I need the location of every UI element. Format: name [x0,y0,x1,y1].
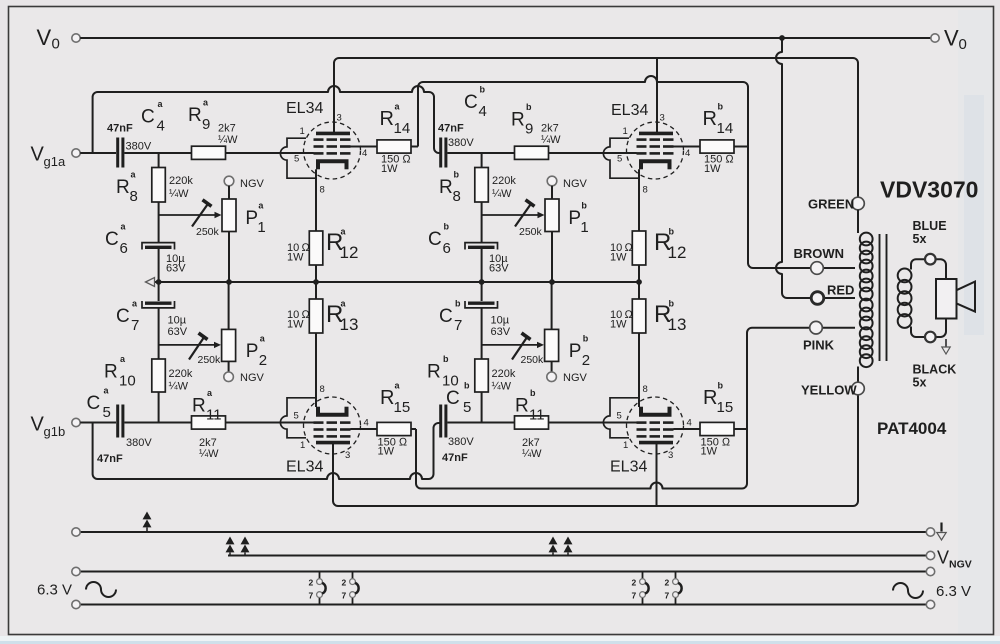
svg-text:b: b [718,102,724,112]
wire heater bus VNGV line [228,555,926,557]
resistor R8a [158,153,160,168]
transformer RED terminal [811,292,824,305]
svg-text:47nF: 47nF [442,452,468,464]
tube EL34 upper a envelope [304,122,361,179]
svg-text:250k: 250k [519,226,543,238]
wiper P1a [159,214,217,216]
svg-text:220k: 220k [169,368,193,380]
ground marker right [940,523,942,532]
terminal H1 right [926,528,934,536]
svg-text:0: 0 [52,36,60,53]
svg-text:C: C [464,92,478,113]
junction V0 drop [779,35,785,41]
svg-text:7: 7 [131,317,139,334]
svg-text:b: b [583,334,589,344]
capacitor C4b [439,138,442,168]
svg-text:4: 4 [362,148,367,159]
wire heater bus H1 ground ref line [80,531,926,533]
svg-text:R: R [380,108,394,130]
svg-text:YELLOW: YELLOW [801,383,857,398]
capacitor C4a [80,152,116,154]
svg-text:15: 15 [717,399,734,416]
heater pins 2/7 link at x=319.5 [319,572,321,580]
svg-text:¼W: ¼W [199,448,219,460]
resistor R10b [475,359,489,392]
svg-text:P: P [245,208,258,229]
svg-text:5: 5 [294,411,299,422]
wire screen rail R14a/R14b to BROWN tap [418,76,855,268]
svg-text:5: 5 [294,154,299,165]
svg-text:2: 2 [342,578,347,588]
terminal H4 left [72,600,80,608]
svg-text:15: 15 [394,399,411,416]
svg-text:9: 9 [202,116,210,133]
svg-text:4: 4 [479,103,487,120]
svg-text:2: 2 [632,578,637,588]
secondary BLACK terminal [925,332,936,343]
transformer YELLOW terminal [852,382,865,395]
svg-text:1: 1 [623,126,628,137]
terminal VNGV right [926,551,934,559]
svg-text:R: R [116,177,130,198]
tube EL34 upper a cathode [316,159,349,163]
svg-text:10µ: 10µ [491,315,510,327]
svg-text:47nF: 47nF [438,123,464,135]
svg-text:R: R [427,362,441,383]
resistor R10a [152,359,166,392]
svg-text:V: V [37,25,52,50]
speaker [936,279,957,319]
svg-text:C: C [116,306,130,327]
sine symbol right [893,583,923,598]
svg-text:b: b [444,222,450,232]
resistor R13a [315,282,317,299]
svg-text:b: b [455,299,461,309]
terminal Vg1a [72,149,80,157]
terminal NGV P2b [547,372,557,382]
svg-text:250k: 250k [198,354,222,366]
svg-text:¼W: ¼W [492,381,512,393]
resistor R9a [192,146,226,159]
tube EL34 lower b grid rows [637,435,647,438]
svg-text:R: R [511,110,525,131]
svg-text:2: 2 [582,352,590,369]
svg-text:1W: 1W [701,446,718,458]
svg-text:7: 7 [632,591,637,601]
wire upper EL34 b anode to rail [656,58,658,133]
svg-text:C: C [428,229,442,250]
svg-text:NGV: NGV [240,372,265,384]
svg-text:BROWN: BROWN [794,246,845,261]
svg-text:1: 1 [257,219,265,236]
svg-text:EL34: EL34 [286,459,323,476]
svg-text:b: b [669,227,675,237]
terminal H1 left [72,528,80,536]
svg-text:1: 1 [623,440,628,451]
tube EL34 upper b grid rows [637,138,647,141]
capacitor C5a [80,422,116,424]
svg-text:C: C [105,229,119,250]
svg-text:9: 9 [525,121,533,138]
svg-text:BLACK: BLACK [913,363,957,377]
svg-text:1W: 1W [704,163,721,175]
svg-text:8: 8 [130,188,138,205]
svg-text:3: 3 [337,113,342,124]
capacitor C5b [439,405,442,438]
node V0 left terminal [72,34,80,42]
svg-text:10: 10 [119,373,136,390]
svg-text:4: 4 [364,418,369,429]
svg-text:R: R [380,387,394,409]
tube EL34 lower a envelope bracket [280,398,316,438]
svg-text:11: 11 [206,407,222,424]
svg-text:R: R [703,387,717,409]
wiper P1b [482,214,540,216]
tube EL34 upper b envelope [627,122,684,179]
svg-text:¼W: ¼W [169,381,189,393]
svg-text:C: C [439,306,453,327]
svg-text:P: P [246,341,259,362]
svg-text:V: V [31,414,45,436]
svg-text:¼W: ¼W [169,188,189,200]
svg-text:2k7: 2k7 [541,123,559,135]
svg-text:10µ: 10µ [168,315,187,327]
wire lower EL34 b anode [656,443,658,506]
svg-text:4: 4 [687,418,692,429]
svg-text:5: 5 [617,411,622,422]
potentiometer P1b [551,186,553,199]
svg-text:R: R [188,105,202,126]
wire V0 rail [80,37,931,39]
svg-text:250k: 250k [521,354,545,366]
svg-text:b: b [480,85,486,95]
tube EL34 upper a anode plate [316,132,350,136]
svg-text:250k: 250k [196,226,220,238]
svg-text:C: C [141,107,155,128]
svg-text:2: 2 [309,578,314,588]
svg-text:¼W: ¼W [541,134,561,146]
svg-text:VDV3070: VDV3070 [880,177,978,203]
svg-text:R: R [439,177,453,198]
node V0 right terminal [931,34,939,42]
wire top anode rail to GREEN [334,58,858,197]
arrow to mid reference on H1 [143,513,150,527]
tube EL34 lower a cathode [316,413,349,417]
svg-text:V: V [937,548,949,568]
svg-text:12: 12 [668,243,687,262]
wire lower anodes line to YELLOW [333,395,858,506]
svg-text:¼W: ¼W [218,134,238,146]
svg-text:RED: RED [827,283,854,298]
svg-text:1W: 1W [378,446,395,458]
svg-text:14: 14 [717,120,734,137]
svg-text:8: 8 [453,188,461,205]
svg-text:V: V [944,26,959,51]
resistor R14b [674,146,701,148]
secondary BLUE terminal [925,254,936,265]
transformer PINK terminal [810,321,823,334]
wiper P2b [482,344,539,346]
tube EL34 upper a grid rows [314,138,324,141]
heater pins 2/7 link at x=352.5 [352,572,354,580]
svg-text:C: C [446,388,460,409]
wire mid NGV reference line [154,281,639,283]
svg-text:3: 3 [345,450,350,461]
terminal H3 right [926,567,934,575]
svg-text:P: P [568,208,581,229]
svg-text:C: C [87,393,101,414]
svg-text:5: 5 [103,404,111,421]
svg-text:b: b [443,354,449,364]
terminal NGV P1b [547,176,557,186]
svg-text:8: 8 [643,384,648,395]
svg-text:14: 14 [394,120,411,137]
resistor R15b [674,428,701,430]
svg-text:4: 4 [685,148,690,159]
svg-text:220k: 220k [492,175,516,187]
transformer BROWN terminal [811,262,824,275]
capacitor C7b [481,282,483,301]
resistor R14a [351,146,378,148]
open arrow left of mid line [146,278,155,287]
svg-text:11: 11 [529,407,545,424]
svg-text:5x: 5x [913,376,927,390]
tube EL34 upper b envelope bracket [603,138,639,178]
svg-text:3: 3 [668,450,673,461]
svg-text:NGV: NGV [563,372,588,384]
svg-text:R: R [703,108,717,130]
svg-text:0: 0 [959,36,967,53]
terminal NGV P1a [224,176,234,186]
svg-text:1W: 1W [610,252,627,264]
capacitor C6b [465,243,498,250]
svg-text:NGV: NGV [240,178,265,190]
svg-text:220k: 220k [492,368,516,380]
svg-text:8: 8 [643,185,648,196]
svg-text:47nF: 47nF [107,123,133,135]
svg-text:R: R [104,362,118,383]
svg-text:EL34: EL34 [610,459,647,476]
svg-text:63V: 63V [489,263,509,275]
potentiometer P2b [551,282,553,329]
svg-text:R: R [515,396,529,417]
tube EL34 upper a envelope bracket [280,138,316,178]
svg-text:8: 8 [320,384,325,395]
svg-text:7: 7 [665,591,670,601]
svg-text:GREEN: GREEN [808,197,854,212]
transformer core [879,234,881,361]
terminal H4 right [926,600,934,608]
wire Vg1b cross line to C5b [93,423,440,479]
capacitor C6a [142,243,175,250]
svg-text:BLUE: BLUE [913,219,947,233]
svg-text:1W: 1W [287,319,304,331]
svg-text:380V: 380V [126,141,152,153]
svg-text:2: 2 [665,578,670,588]
svg-text:b: b [530,388,536,398]
svg-text:1: 1 [300,440,305,451]
arrows NGV channel b [549,538,556,552]
svg-text:220k: 220k [169,175,193,187]
svg-text:g1a: g1a [44,154,66,169]
svg-text:2: 2 [259,352,267,369]
svg-text:13: 13 [340,315,359,334]
svg-text:b: b [464,381,470,391]
potentiometer P1a [228,186,230,199]
svg-text:b: b [718,381,724,391]
heater pins 2/7 link at x=675.5 [675,572,677,580]
svg-text:3: 3 [660,113,665,124]
svg-text:NGV: NGV [949,559,972,571]
svg-text:380V: 380V [448,436,474,448]
svg-text:b: b [526,102,532,112]
svg-text:b: b [454,170,460,180]
svg-text:b: b [669,299,675,309]
tube EL34 lower b anode plate [639,441,673,445]
svg-text:8: 8 [320,185,325,196]
svg-text:6.3 V: 6.3 V [936,583,971,600]
terminal H3 left [72,567,80,575]
svg-text:1W: 1W [610,319,627,331]
svg-text:¼W: ¼W [492,188,512,200]
tube EL34 upper b cathode [639,159,672,163]
svg-text:10: 10 [442,373,459,390]
svg-text:63V: 63V [168,326,188,338]
wiper P2a [159,344,216,346]
resistor R11b [515,416,549,429]
svg-text:7: 7 [309,591,314,601]
speaker ground arrow [945,339,947,347]
tube EL34 lower a anode plate [316,441,350,445]
resistor R8b [481,153,483,168]
heater pins 2/7 link at x=642.5 [642,572,644,580]
svg-text:4: 4 [157,118,165,135]
svg-text:380V: 380V [126,437,152,449]
resistor R12b [638,169,640,231]
wire Vg1a cross line to C4b [93,86,440,153]
svg-text:5x: 5x [913,232,927,246]
svg-text:V: V [31,144,45,166]
resistor R15a [351,428,378,430]
svg-text:R: R [192,396,206,417]
svg-text:6: 6 [443,240,451,257]
svg-text:13: 13 [668,315,687,334]
svg-text:1: 1 [580,219,588,236]
capacitor C7a [158,282,160,301]
resistor R9b [515,146,549,159]
svg-text:EL34: EL34 [286,100,323,117]
transformer secondary winding [911,259,946,279]
svg-text:NGV: NGV [563,178,588,190]
svg-text:12: 12 [340,243,359,262]
junction dots channel b [479,279,485,285]
svg-text:1: 1 [300,126,305,137]
svg-text:b: b [581,201,587,211]
terminal Vg1b [72,418,80,426]
svg-text:7: 7 [342,591,347,601]
junction dots channel a [156,279,162,285]
svg-text:2k7: 2k7 [218,123,236,135]
resistor R11a [192,416,226,429]
svg-text:6: 6 [120,240,128,257]
svg-text:g1b: g1b [44,424,66,439]
svg-text:PAT4004: PAT4004 [877,419,947,438]
svg-text:380V: 380V [448,137,474,149]
resistor R13b [638,282,640,299]
svg-text:1W: 1W [287,252,304,264]
svg-text:PINK: PINK [803,338,835,353]
svg-text:7: 7 [454,317,462,334]
svg-text:5: 5 [617,154,622,165]
tube EL34 lower a grid rows [314,435,324,438]
svg-text:63V: 63V [491,326,511,338]
svg-text:47nF: 47nF [97,453,123,465]
svg-text:5: 5 [463,399,471,416]
tube EL34 lower a envelope [304,397,361,454]
svg-text:P: P [569,341,582,362]
tube EL34 lower b envelope bracket [603,398,639,438]
wire heater bus H4 [80,604,926,606]
terminal NGV P2a [224,372,234,382]
tube EL34 lower b cathode [639,413,672,417]
tube EL34 lower b envelope [627,397,684,454]
svg-text:1W: 1W [381,163,398,175]
transformer VDV3070 GREEN terminal [852,197,865,210]
wire V0 drop to RED center tap [776,38,855,298]
resistor R12a [315,169,317,231]
svg-text:¼W: ¼W [522,448,542,460]
tube EL34 upper b anode plate [639,132,673,136]
potentiometer P2a [228,282,230,329]
arrows NGV channel a [226,538,233,552]
sine symbol left [86,582,116,597]
wire heater bus H3 [80,571,926,573]
svg-text:EL34: EL34 [611,102,648,119]
transformer primary winding [857,210,859,233]
wire screen rail R15a/R15b to PINK tap [411,328,855,489]
svg-text:6.3 V: 6.3 V [37,582,72,599]
svg-text:63V: 63V [166,263,186,275]
